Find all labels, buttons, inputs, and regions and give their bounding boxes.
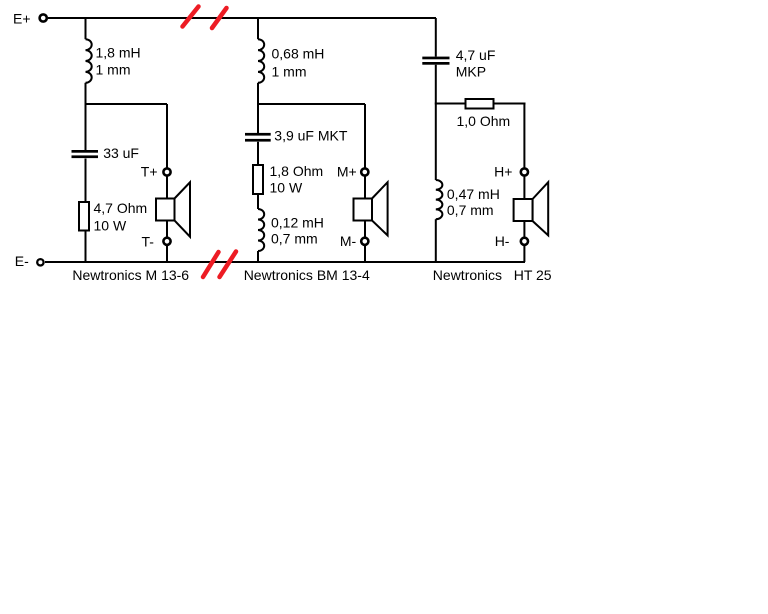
terminal T- <box>163 238 170 245</box>
svg-text:10 W: 10 W <box>270 180 303 196</box>
svg-text:1,8 Ohm: 1,8 Ohm <box>270 163 324 179</box>
wire top bus <box>48 17 436 19</box>
wire T- down <box>166 245 168 262</box>
svg-text:4,7 Ohm: 4,7 Ohm <box>94 200 148 216</box>
crossing mark top slash 1 <box>183 7 199 27</box>
resistor R1 4,7 Ohm <box>79 202 89 231</box>
wire below C3 <box>435 65 437 180</box>
wire branch2 top <box>257 18 259 39</box>
wire T+ to speaker <box>166 176 168 197</box>
inductor L1 1,8 mH <box>86 39 92 83</box>
inductor L3 0,12 mH <box>258 209 264 251</box>
svg-text:0,68 mH: 0,68 mH <box>272 46 325 62</box>
wire branch2 mid <box>257 83 259 133</box>
wire below R1 <box>85 231 87 262</box>
wire speaker3 leg <box>523 104 525 169</box>
crossing mark bottom slash 2 <box>220 252 237 278</box>
svg-text:Newtronics BM 13-4: Newtronics BM 13-4 <box>244 267 370 283</box>
svg-text:0,7 mm: 0,7 mm <box>447 202 494 218</box>
wire speaker1 leg <box>166 104 168 168</box>
terminal H- <box>521 238 528 245</box>
wire below L3 <box>257 251 259 262</box>
terminal T+ <box>163 168 170 175</box>
speaker LS2 horn <box>372 182 388 235</box>
svg-text:1,0 Ohm: 1,0 Ohm <box>457 113 511 129</box>
svg-text:4,7 uF: 4,7 uF <box>456 47 496 63</box>
speaker LS2 box <box>354 199 373 221</box>
speaker LS1 horn <box>175 182 191 236</box>
svg-text:E-: E- <box>15 253 29 269</box>
svg-text:MKP: MKP <box>456 63 486 79</box>
terminal M- <box>361 238 368 245</box>
terminal H+ <box>521 168 528 175</box>
svg-text:0,12 mH: 0,12 mH <box>271 214 324 230</box>
wire below L4 <box>435 219 437 262</box>
resistor R3 1,0 Ohm <box>466 99 494 109</box>
svg-text:T-: T- <box>142 233 155 249</box>
speaker LS1 box <box>156 199 175 221</box>
wire below C2 <box>257 142 259 164</box>
resistor R2 1,8 Ohm <box>253 165 263 194</box>
svg-text:3,9 uF MKT: 3,9 uF MKT <box>274 128 348 144</box>
capacitor C1 33 uF <box>72 150 99 153</box>
wire speaker to T- <box>166 222 168 238</box>
terminal E- <box>37 259 43 265</box>
svg-text:10 W: 10 W <box>94 217 127 233</box>
svg-text:1,8 mH: 1,8 mH <box>96 45 141 61</box>
svg-text:0,47 mH: 0,47 mH <box>447 186 500 202</box>
capacitor C3 4,7 uF MKP <box>422 57 449 60</box>
capacitor C2 3,9 uF MKT <box>245 133 271 136</box>
wire speaker to M- <box>364 222 366 238</box>
wire branch1 mid <box>85 83 87 150</box>
svg-text:M+: M+ <box>337 163 357 179</box>
svg-text:H-: H- <box>495 233 510 249</box>
inductor L2 0,68 mH <box>258 39 264 83</box>
svg-text:H+: H+ <box>494 163 512 179</box>
svg-text:E+: E+ <box>13 10 31 26</box>
wire M- down <box>364 245 366 262</box>
wire junction branch2 <box>257 103 365 105</box>
wire below R2 <box>257 195 259 210</box>
svg-text:T+: T+ <box>141 164 158 180</box>
speaker LS3 box <box>514 199 533 221</box>
wire R3 to right leg <box>494 103 526 105</box>
wire speaker2 leg <box>364 104 366 168</box>
speaker LS3 horn <box>533 182 549 235</box>
svg-text:0,7 mm: 0,7 mm <box>271 231 318 247</box>
wire branch3 top <box>435 18 437 57</box>
svg-text:Newtronics HT 25: Newtronics HT 25 <box>433 267 552 283</box>
wire M+ to speaker <box>364 176 366 197</box>
inductor L4 0,47 mH <box>436 180 443 219</box>
svg-text:M-: M- <box>340 233 357 249</box>
crossing mark top slash 2 <box>212 8 227 28</box>
terminal E+ <box>40 14 47 21</box>
svg-text:Newtronics M 13-6: Newtronics M 13-6 <box>72 267 189 283</box>
wire junction branch1 <box>85 103 168 105</box>
wire junction branch3 <box>435 103 466 105</box>
wire H+ to speaker <box>523 176 525 199</box>
crossing mark bottom slash 1 <box>203 252 219 277</box>
wire speaker to H- <box>523 221 525 238</box>
svg-text:33 uF: 33 uF <box>103 145 139 161</box>
svg-text:1 mm: 1 mm <box>272 64 307 80</box>
svg-text:1 mm: 1 mm <box>96 61 131 77</box>
wire bottom bus <box>45 261 525 263</box>
wire below C1 <box>85 159 87 202</box>
terminal M+ <box>361 168 368 175</box>
wire H- down <box>523 245 525 262</box>
wire branch1 top <box>85 18 87 39</box>
